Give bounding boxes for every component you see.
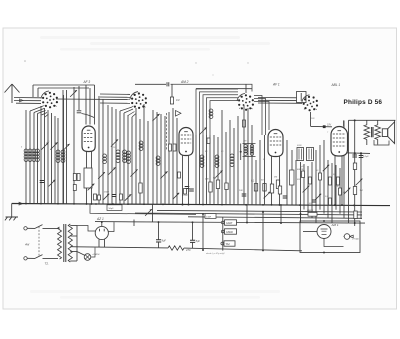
tube socket V4 bbox=[316, 104, 318, 106]
terminal box GSM bbox=[225, 229, 237, 234]
wire column B5 bbox=[85, 85, 87, 125]
junction dot 16 bbox=[279, 204, 281, 206]
bus node 17 bbox=[315, 204, 317, 206]
coil L10 bbox=[139, 141, 143, 145]
wire column E5 bbox=[229, 120, 231, 204]
wire socket3 right 1 bbox=[254, 96, 262, 136]
wire socket3 right 2 bbox=[254, 99, 266, 136]
node IF junction bbox=[240, 151, 242, 153]
capacitor C7 bbox=[77, 111, 82, 113]
svg-text:10V: 10V bbox=[327, 125, 332, 127]
resistor R13 bbox=[278, 186, 281, 194]
wire column E8 bbox=[195, 135, 197, 204]
resistor R18 bbox=[329, 177, 332, 185]
coil L7 bbox=[116, 150, 120, 154]
coil L6 bbox=[61, 150, 65, 154]
trimmer C16 bbox=[199, 127, 206, 134]
wire terminal chain bbox=[222, 217, 224, 251]
capacitor C13 bbox=[167, 82, 169, 86]
wire RF column A8 bbox=[51, 113, 53, 204]
wire column A10 bbox=[57, 118, 59, 204]
capacitor C18 bbox=[242, 194, 247, 196]
bus node 18 bbox=[334, 204, 336, 206]
resistor R12 bbox=[270, 184, 273, 193]
svg-text:GANT: GANT bbox=[226, 222, 233, 225]
coil L4 bbox=[36, 149, 40, 153]
wire tap 4 bbox=[70, 251, 77, 253]
bus node 15 bbox=[280, 204, 282, 206]
wire heater rail B bbox=[184, 248, 302, 251]
rectifier leg 2 bbox=[104, 239, 106, 247]
mains pin bottom bbox=[24, 257, 27, 260]
junction dot 11 bbox=[262, 249, 264, 251]
tube V5 grid bars bbox=[321, 229, 328, 231]
svg-text:1500: 1500 bbox=[104, 192, 110, 194]
wire mains top bbox=[27, 227, 35, 229]
IF can inner bbox=[300, 93, 302, 101]
terminal GSM pin bbox=[221, 230, 224, 233]
coil can L17 inner bbox=[299, 149, 302, 160]
trimmer C37 bbox=[145, 209, 152, 216]
trimmer C38 bbox=[173, 193, 179, 199]
wire column B3 bbox=[73, 87, 75, 204]
junction dot 14 bbox=[334, 204, 336, 206]
resistor R32 bbox=[120, 194, 123, 200]
wire column G1 bbox=[286, 140, 288, 205]
trimmer C3 bbox=[62, 144, 69, 151]
wire B+ rail bbox=[95, 222, 365, 224]
trimmer C22 bbox=[303, 186, 310, 193]
wire column C3 bbox=[115, 109, 117, 204]
terminal box label bbox=[205, 214, 216, 219]
wire column F2 bbox=[247, 108, 249, 204]
svg-text:abcde f_m 4Ty wrfg2: abcde f_m 4Ty wrfg2 bbox=[206, 253, 225, 255]
terminal box TA bbox=[224, 241, 235, 246]
switch bottom bbox=[35, 255, 43, 259]
ghost bleed-through bottom bbox=[30, 290, 280, 299]
junction dot 3 bbox=[202, 213, 204, 215]
wire V5 left lead bbox=[303, 231, 317, 233]
wire socket3 right 3 bbox=[254, 102, 269, 131]
wire column H12 bbox=[343, 121, 345, 219]
resistor R21 bbox=[329, 198, 332, 205]
wire column H8 bbox=[327, 160, 329, 218]
wire column J2 bbox=[262, 211, 264, 251]
trimmer C1 bbox=[41, 142, 48, 149]
resistor R17 bbox=[319, 173, 322, 180]
junction dot 2 bbox=[192, 221, 194, 223]
wire grid rail cont bbox=[171, 84, 253, 91]
shield box under T1 bbox=[84, 168, 92, 188]
wire box left 1 bbox=[32, 85, 34, 97]
wire tube3 leg2 bbox=[279, 157, 281, 205]
resistor R9 bbox=[254, 184, 257, 192]
resistor R25 bbox=[308, 212, 317, 216]
wire tap 3 bbox=[70, 246, 77, 248]
junction dot 10 bbox=[323, 252, 325, 254]
wire column D1 bbox=[152, 110, 154, 204]
wire input top bbox=[14, 97, 41, 99]
junction dot 19 bbox=[182, 204, 184, 206]
svg-text:1M: 1M bbox=[360, 190, 363, 192]
transformer T2 primary bbox=[58, 227, 62, 259]
trimmer C19 bbox=[264, 192, 271, 199]
pilot lamp cross bbox=[85, 255, 90, 260]
bus node 4 bbox=[73, 203, 75, 205]
wire column H13 bbox=[348, 120, 350, 223]
rectifier anode bars bbox=[100, 229, 105, 232]
trimmer C33 bbox=[98, 172, 105, 179]
bus node 9 bbox=[162, 203, 164, 205]
capacitor C26 bbox=[312, 200, 317, 202]
tube V3 envelope bbox=[268, 130, 283, 157]
wire tap 5 bbox=[70, 260, 77, 262]
wire column E7 bbox=[237, 116, 239, 204]
wire column J1 bbox=[246, 205, 248, 223]
tube V2 envelope bbox=[179, 128, 193, 156]
wire socket2 left 3 bbox=[100, 102, 130, 104]
bus node 12 bbox=[221, 204, 223, 206]
wire RF column A4 bbox=[37, 114, 39, 204]
wire V5 bottom lead bbox=[324, 239, 344, 247]
scan speck 3 bbox=[212, 74, 213, 75]
svg-text:27Ω: 27Ω bbox=[185, 249, 191, 252]
wire detector line bbox=[311, 125, 332, 127]
coil L19 bbox=[103, 154, 107, 158]
wire lamp lead 2 bbox=[91, 248, 95, 257]
junction dot 5 bbox=[262, 211, 264, 213]
resistor R10 bbox=[263, 184, 266, 192]
wire RF column A5 bbox=[40, 106, 42, 204]
coil L20 bbox=[209, 109, 213, 113]
wire column B4 bbox=[78, 86, 80, 110]
resistor R28 bbox=[77, 174, 80, 181]
bus node 19 bbox=[353, 204, 355, 206]
wire tap 2 bbox=[70, 235, 77, 237]
trimmer C14 bbox=[152, 114, 159, 121]
wire column E6 bbox=[233, 128, 235, 204]
bus node 11 bbox=[202, 204, 204, 206]
svg-text:GSM2: GSM2 bbox=[226, 231, 233, 234]
junction dot 21 bbox=[86, 203, 88, 205]
coil L16 bbox=[250, 145, 253, 148]
wire column G2 bbox=[291, 150, 293, 205]
wire tube4 leg1 bbox=[334, 156, 336, 205]
resistor R3 bbox=[169, 144, 172, 151]
wire column B8 bbox=[102, 99, 104, 204]
wire column H11 bbox=[339, 168, 341, 214]
wire socket3 L-lead 5 bbox=[210, 101, 238, 135]
svg-text:AZ 1: AZ 1 bbox=[96, 217, 104, 221]
resistor R2 bbox=[170, 97, 173, 104]
wire tube2 leg1 bbox=[182, 156, 184, 205]
tube V1 envelope bbox=[82, 126, 95, 151]
signal arrow input bbox=[20, 99, 23, 102]
trimmer C2 bbox=[50, 142, 57, 149]
wire column C9 bbox=[139, 119, 141, 204]
bus node 2 bbox=[40, 203, 42, 205]
wire column J3 bbox=[280, 205, 282, 223]
IF transformer frame bbox=[243, 144, 256, 157]
svg-text:AM 2: AM 2 bbox=[180, 80, 189, 84]
wire column H9 bbox=[331, 163, 333, 223]
wire column H4 bbox=[311, 162, 313, 218]
bus node 10 bbox=[182, 204, 184, 206]
trimmer C36 bbox=[125, 194, 131, 200]
wire column C2 bbox=[111, 107, 113, 204]
coil L2 bbox=[28, 149, 32, 153]
bus arrow marker bbox=[19, 202, 23, 205]
wire jack lead bbox=[343, 236, 346, 238]
terminal box note bbox=[107, 205, 122, 211]
tube socket V1 bbox=[56, 101, 58, 103]
wire column B6 bbox=[89, 88, 91, 125]
rectifier AZ1 envelope bbox=[95, 226, 108, 239]
node N1 bbox=[354, 152, 356, 154]
wire column H1 bbox=[300, 162, 302, 223]
wire column C6 bbox=[127, 115, 129, 204]
terminal TA pin bbox=[221, 242, 224, 245]
junction dot 15 bbox=[341, 204, 343, 206]
terminal box GANT bbox=[225, 220, 237, 225]
wire socket4 drop bbox=[310, 112, 312, 127]
svg-text:AF 3: AF 3 bbox=[83, 80, 91, 84]
wire column H3 bbox=[307, 166, 309, 214]
wire column C10 bbox=[143, 104, 145, 204]
wire sub-bus 2 bbox=[135, 213, 362, 215]
junction dot 6 bbox=[280, 222, 282, 224]
jack tip bbox=[350, 235, 353, 238]
coil L8 bbox=[123, 150, 127, 154]
coil can L17 bbox=[297, 148, 304, 161]
wire column C7 bbox=[131, 117, 133, 204]
wire column F6 bbox=[264, 135, 266, 204]
coil L13 bbox=[215, 155, 219, 159]
wire input low bbox=[16, 102, 41, 104]
resistor R15 bbox=[302, 171, 305, 178]
bus node 6 bbox=[112, 203, 114, 205]
wire column C1 bbox=[107, 105, 109, 204]
filter cap C30 lead bbox=[158, 222, 160, 240]
capacitor C31 bbox=[190, 240, 195, 242]
wire column J6 bbox=[133, 220, 135, 227]
rectifier leg 1 bbox=[98, 239, 100, 247]
resistor R6 bbox=[209, 182, 212, 192]
resistor R34 bbox=[184, 189, 187, 195]
trimmer C24 bbox=[344, 188, 351, 195]
resistor R30 bbox=[98, 195, 101, 200]
svg-text:25000: 25000 bbox=[306, 210, 314, 212]
bus node 5 bbox=[95, 203, 97, 205]
switch top bbox=[35, 225, 43, 229]
resistor R31 bbox=[94, 194, 97, 200]
resistor R35 bbox=[243, 120, 246, 127]
wire RF column A7 bbox=[47, 110, 49, 204]
wire xfmr top lead 2 bbox=[377, 120, 379, 125]
wire column C5 bbox=[123, 113, 125, 204]
wire tube4 leg2 bbox=[341, 156, 343, 205]
wire socket3 L-lead 1 bbox=[196, 89, 238, 135]
jack plug bbox=[344, 234, 350, 240]
wire column D5 bbox=[168, 112, 170, 204]
resistor R27 bbox=[73, 174, 76, 181]
wire RF column A2 bbox=[29, 111, 31, 204]
junction dot 17 bbox=[271, 204, 273, 206]
wire top rail 2 bbox=[38, 87, 89, 89]
wire column I1 bbox=[354, 121, 356, 226]
trimmer C6 bbox=[70, 90, 77, 97]
wire column E2 bbox=[217, 137, 219, 204]
trimmer C32 bbox=[88, 184, 95, 191]
wire socket1 fan bbox=[30, 106, 49, 117]
junction dot 12 bbox=[202, 249, 204, 251]
wire socket2 left 1 bbox=[100, 93, 130, 95]
trimmer C17 bbox=[215, 170, 222, 177]
capacitor C12 bbox=[189, 189, 194, 191]
wire column B2 bbox=[66, 90, 68, 204]
wire tube leg 2 bbox=[91, 152, 93, 204]
capacitor C30 bbox=[156, 240, 161, 242]
trimmer C25 bbox=[315, 194, 321, 200]
resistor R22 bbox=[353, 163, 356, 170]
wire socket2 fan bbox=[120, 107, 136, 117]
resistor R11 bbox=[276, 180, 279, 189]
wire column E4 bbox=[225, 132, 227, 204]
wire socket3 drop bbox=[245, 85, 247, 94]
speaker cone bbox=[388, 122, 395, 144]
capacitor C20 bbox=[283, 196, 288, 198]
resistor R5 bbox=[207, 138, 210, 144]
svg-text:4W: 4W bbox=[25, 243, 30, 247]
trimmer C23 bbox=[323, 165, 329, 171]
resistor R24 bbox=[354, 211, 357, 219]
trimmer C15 bbox=[160, 171, 167, 178]
svg-text:AM 1: AM 1 bbox=[331, 223, 339, 227]
wire column D7 bbox=[176, 118, 178, 204]
ghost bleed-through top bbox=[40, 36, 270, 51]
junction dot 8 bbox=[323, 220, 325, 222]
wire column E9 bbox=[199, 135, 201, 204]
wire tube leg 1 bbox=[86, 152, 88, 204]
pilot lamp bbox=[84, 254, 91, 261]
wire column A11 bbox=[62, 90, 64, 204]
wire mains bottom 2 bbox=[43, 258, 59, 260]
wire xfmr bottom lead 2 bbox=[377, 140, 379, 145]
wire column B7 bbox=[98, 96, 100, 204]
capacitor C35 bbox=[112, 195, 117, 197]
wire tube4 grid lead bbox=[343, 120, 345, 126]
coil L15 bbox=[244, 145, 247, 148]
svg-text:ABL 1: ABL 1 bbox=[331, 83, 341, 87]
resistor R33 bbox=[178, 172, 181, 178]
wire column D3 bbox=[160, 114, 162, 204]
svg-text:T2.: T2. bbox=[45, 262, 50, 266]
resistor R7 bbox=[216, 180, 219, 189]
wire RF column A9 bbox=[54, 116, 56, 204]
junction dot 1 bbox=[158, 221, 160, 223]
resistor R19 bbox=[337, 177, 340, 185]
capacitor C4 bbox=[40, 181, 45, 183]
filter cap C31 lead2 bbox=[192, 242, 194, 248]
coil can L18 bbox=[307, 148, 314, 161]
svg-text:2xAF: 2xAF bbox=[206, 215, 212, 218]
ground lead bbox=[11, 204, 13, 218]
main ground bus bbox=[12, 204, 390, 206]
mains pin top bbox=[24, 227, 27, 230]
wire grid rail 2 bbox=[196, 88, 252, 90]
bus node 13 bbox=[245, 204, 247, 206]
transformer T1 secondary bbox=[375, 125, 381, 140]
bus node 1 bbox=[25, 203, 27, 205]
junction dot 18 bbox=[188, 204, 190, 206]
junction dot 4 bbox=[246, 222, 248, 224]
filter cap C31 lead bbox=[192, 222, 194, 240]
svg-text:50000: 50000 bbox=[297, 169, 304, 171]
svg-text:1M: 1M bbox=[274, 177, 277, 179]
wire column D4 bbox=[164, 116, 166, 204]
wire column H7 bbox=[323, 140, 325, 214]
scan speck 4 bbox=[247, 62, 248, 63]
resistor R1 bbox=[139, 183, 142, 193]
resistor R20 bbox=[339, 188, 342, 195]
wire tube2 leg2 bbox=[188, 156, 190, 205]
wire column H10 bbox=[335, 165, 337, 210]
wire RF column A1 bbox=[25, 110, 27, 204]
wire column B1 bbox=[63, 95, 65, 204]
resistor R16 bbox=[309, 177, 312, 184]
wire IF lead bbox=[240, 144, 242, 161]
wire column E10 bbox=[202, 135, 204, 204]
wire column H6 bbox=[319, 145, 321, 210]
wire column H5 bbox=[315, 150, 317, 223]
capacitor C27 bbox=[352, 155, 357, 157]
wire under-bus link bbox=[90, 204, 196, 214]
trimmer C9 bbox=[108, 167, 115, 174]
svg-text:8μF: 8μF bbox=[162, 240, 167, 243]
bus node 3 bbox=[57, 203, 59, 205]
trimmer C10 bbox=[130, 169, 137, 176]
coil L14 bbox=[230, 154, 234, 158]
resistor R29 bbox=[73, 185, 76, 191]
wire column J5 bbox=[202, 214, 204, 250]
tube socket V3 bbox=[252, 104, 254, 106]
ground chassis symbol bbox=[5, 217, 18, 220]
capacitor C28 bbox=[359, 156, 364, 158]
wire sub-bus 3 bbox=[188, 217, 362, 219]
IF can box bbox=[297, 92, 307, 103]
terminal GANT pin bbox=[221, 221, 224, 224]
scan speck 1 bbox=[24, 60, 26, 62]
transformer T1 primary bbox=[364, 125, 370, 140]
junction dot 20 bbox=[91, 203, 93, 205]
wire socket4 left 1 bbox=[258, 97, 302, 99]
wire heater rail A bbox=[77, 247, 168, 248]
transformer T2 secondary bbox=[68, 224, 72, 262]
bus node 16 bbox=[299, 204, 301, 206]
wire column C11 bbox=[147, 121, 149, 204]
tube V5 cathode bbox=[322, 234, 327, 236]
coil can L18 inner bbox=[309, 149, 312, 160]
wire mains bottom bbox=[27, 257, 35, 259]
wire top rail 1 bbox=[33, 84, 95, 86]
resistor R4 bbox=[173, 144, 176, 151]
wire drop x152 bbox=[152, 204, 154, 222]
capacitor C21 block bbox=[323, 125, 326, 128]
wire column I2 bbox=[360, 153, 362, 219]
svg-text:AF 1: AF 1 bbox=[272, 83, 280, 87]
wire socket2 left 2 bbox=[100, 96, 130, 98]
coil L9 bbox=[127, 151, 131, 155]
